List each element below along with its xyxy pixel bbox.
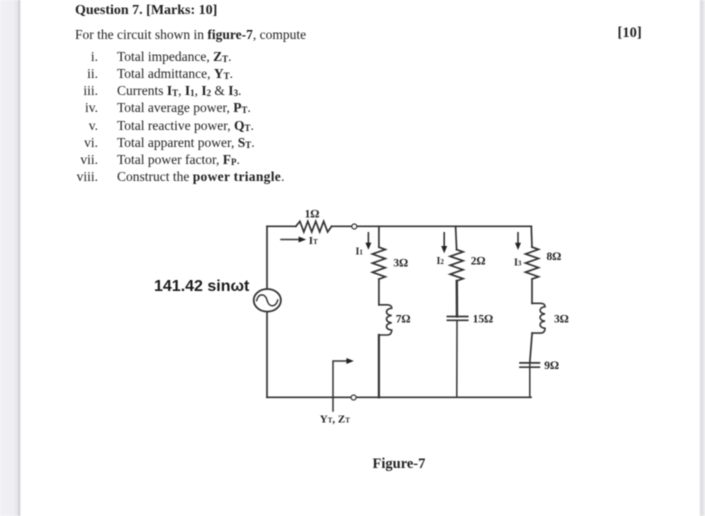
svg-text:3Ω: 3Ω [554, 314, 569, 326]
svg-text:7Ω: 7Ω [396, 314, 411, 326]
svg-text:9Ω: 9Ω [544, 360, 559, 372]
svg-text:1Ω: 1Ω [305, 209, 320, 221]
svg-text:Figure-7: Figure-7 [373, 456, 426, 472]
svg-text:2Ω: 2Ω [471, 256, 486, 268]
svg-text:YT, ZT: YT, ZT [320, 414, 350, 426]
svg-text:I2: I2 [437, 256, 445, 267]
svg-text:8Ω: 8Ω [547, 251, 562, 263]
svg-text:IT: IT [309, 235, 318, 247]
svg-text:15Ω: 15Ω [473, 314, 494, 326]
svg-text:I3: I3 [514, 258, 522, 269]
svg-text:3Ω: 3Ω [393, 258, 408, 270]
svg-text:I1: I1 [356, 247, 364, 258]
